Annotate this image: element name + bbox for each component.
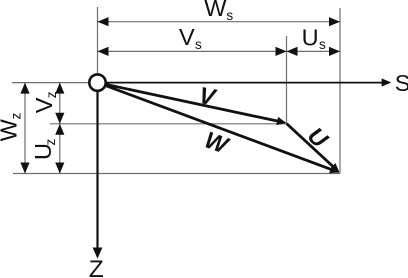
svg-text:U: U bbox=[302, 24, 319, 50]
svg-text:S: S bbox=[395, 70, 408, 96]
dimension Ws bbox=[98, 17, 341, 26]
extension line at W endpoint bbox=[339, 8, 341, 174]
svg-text:z: z bbox=[44, 91, 59, 98]
extension line at V endpoint bbox=[286, 36, 288, 123]
vector U bbox=[287, 124, 340, 173]
vector V bbox=[98, 83, 287, 126]
extension line above origin bbox=[97, 7, 99, 74]
dimension Vs bbox=[98, 47, 287, 56]
svg-text:U: U bbox=[303, 122, 334, 153]
svg-text:Z: Z bbox=[89, 256, 104, 278]
reference line at Vz level bbox=[50, 123, 287, 125]
S axis bbox=[106, 78, 391, 86]
label W (vector) bbox=[201, 126, 233, 159]
vector W bbox=[98, 83, 340, 174]
label V (vector) bbox=[197, 82, 219, 111]
svg-text:s: s bbox=[319, 37, 326, 52]
svg-text:W: W bbox=[204, 0, 227, 21]
Z axis bbox=[93, 91, 103, 259]
svg-text:V: V bbox=[31, 97, 57, 113]
reference line at Wz level bbox=[13, 173, 340, 175]
label Vz bbox=[31, 91, 59, 113]
label U (vector) bbox=[303, 122, 334, 153]
svg-text:s: s bbox=[195, 37, 202, 52]
svg-text:V: V bbox=[179, 24, 195, 50]
svg-text:z: z bbox=[43, 139, 58, 146]
dimension Us bbox=[287, 47, 341, 56]
svg-text:z: z bbox=[8, 112, 23, 119]
label Uz bbox=[30, 139, 58, 161]
svg-text:W: W bbox=[0, 118, 21, 141]
axis segment left of origin bbox=[12, 82, 90, 84]
origin node bbox=[89, 74, 105, 90]
svg-text:s: s bbox=[226, 8, 233, 23]
dimension Wz bbox=[20, 83, 29, 174]
dimension Uz bbox=[55, 124, 64, 174]
dimension Vz bbox=[55, 83, 64, 124]
label Wz bbox=[0, 112, 23, 141]
